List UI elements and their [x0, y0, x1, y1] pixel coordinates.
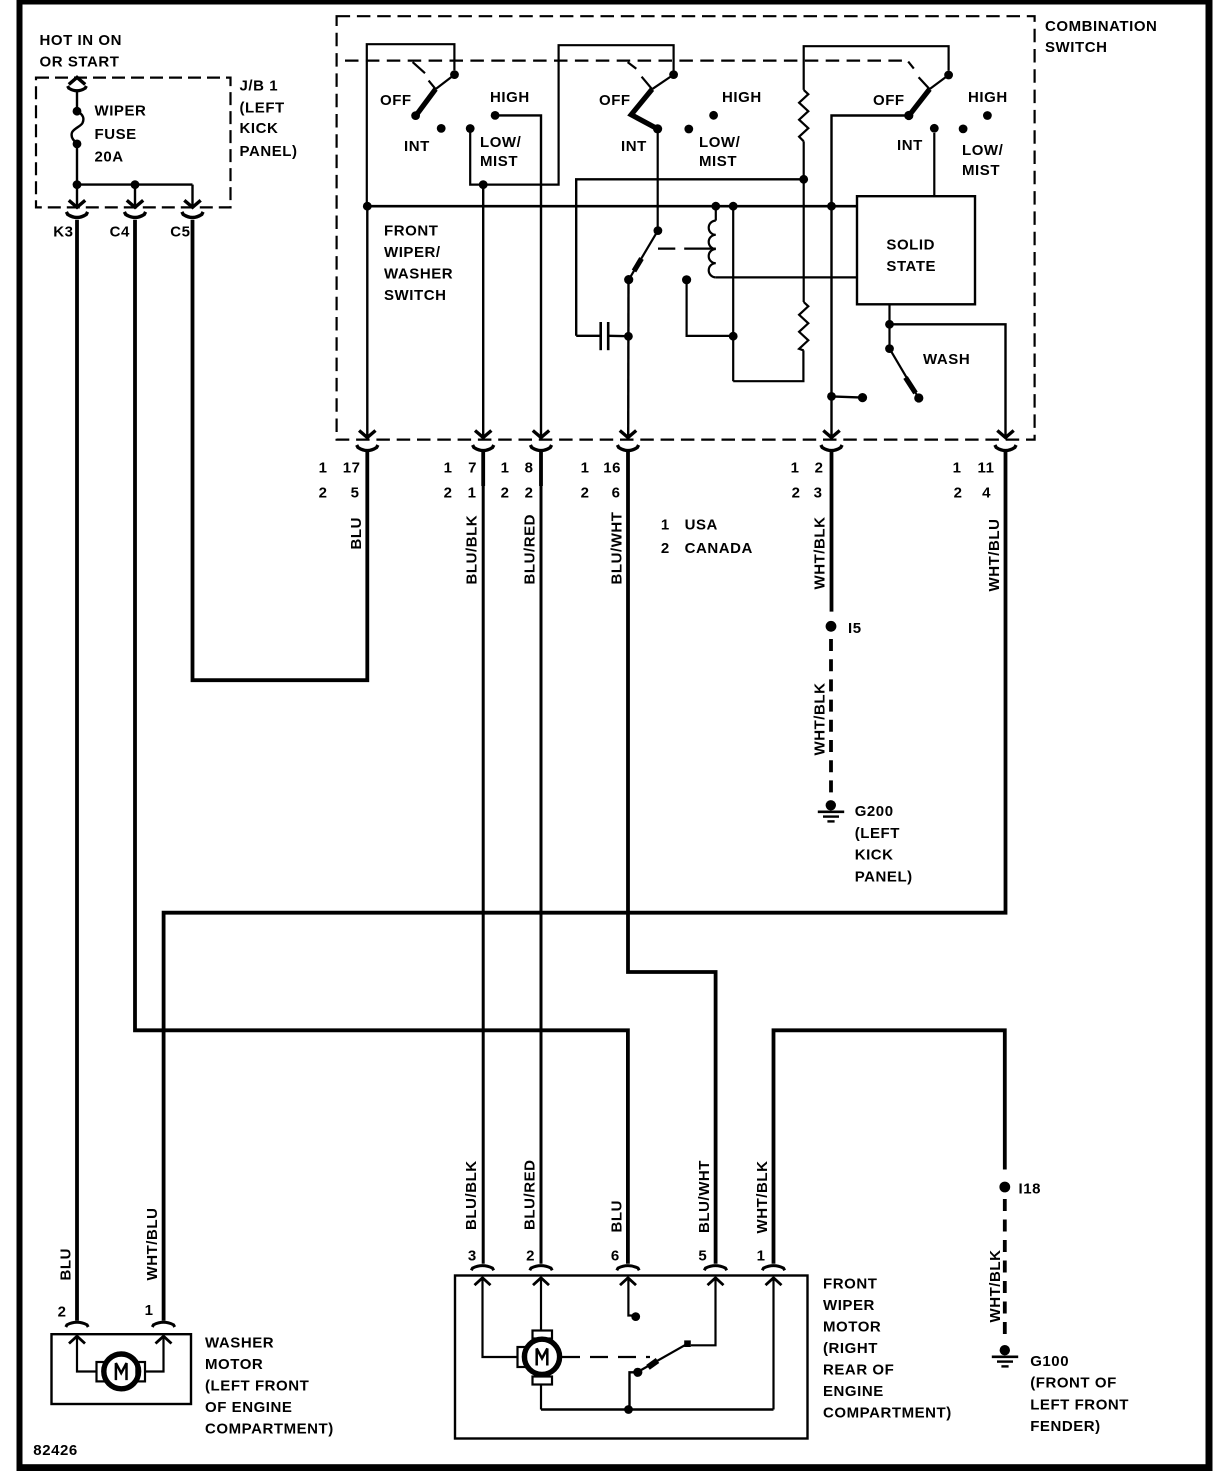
- svg-text:WIPER: WIPER: [95, 103, 147, 120]
- wire bus to pin 17 connector: [366, 206, 368, 436]
- timing node line y179: [576, 175, 808, 336]
- svg-text:FENDER): FENDER): [1030, 1418, 1101, 1435]
- svg-text:BLU/RED: BLU/RED: [522, 514, 539, 585]
- switch 1 feed box wire: [367, 44, 455, 204]
- wire switch1 LOW/MIST to pin 7 node: [470, 129, 487, 437]
- svg-text:LOW/: LOW/: [699, 134, 741, 151]
- svg-text:INT: INT: [897, 137, 923, 154]
- svg-text:1: 1: [757, 1247, 766, 1264]
- relay switch arm: [629, 226, 662, 279]
- connector pin 2/3 (WHT/BLK): [791, 431, 843, 502]
- svg-text:MOTOR: MOTOR: [823, 1319, 881, 1336]
- svg-text:1: 1: [791, 459, 800, 476]
- svg-text:G200: G200: [855, 803, 894, 820]
- washer motor pin 2 connector: [58, 1304, 89, 1344]
- switch 1 contacts OFF INT LOW/MIST HIGH: [411, 111, 499, 133]
- wiper motor M2: [518, 1331, 560, 1385]
- svg-text:1: 1: [953, 459, 962, 476]
- svg-text:1: 1: [468, 485, 477, 502]
- svg-text:(FRONT OF: (FRONT OF: [1030, 1375, 1117, 1392]
- relay contact left (to BLU/WHT): [624, 275, 633, 284]
- svg-text:OFF: OFF: [380, 92, 412, 109]
- wire WHT/BLK wiper motor ground to I18: [774, 1030, 1005, 1264]
- washer motor M1: [97, 1354, 146, 1389]
- resistor R2: [799, 302, 808, 350]
- svg-text:2: 2: [792, 485, 801, 502]
- svg-text:BLU: BLU: [58, 1248, 75, 1280]
- svg-text:MOTOR: MOTOR: [205, 1356, 263, 1373]
- ground G100: [992, 1345, 1129, 1435]
- wiper motor pin 5 connector: [704, 1266, 726, 1286]
- relay contact right: [682, 275, 733, 336]
- svg-text:OR START: OR START: [40, 53, 120, 70]
- svg-text:2: 2: [954, 485, 963, 502]
- svg-text:2: 2: [501, 485, 510, 502]
- svg-text:KICK: KICK: [240, 120, 279, 137]
- svg-text:COMPARTMENT): COMPARTMENT): [823, 1405, 952, 1422]
- svg-text:J/B 1: J/B 1: [240, 78, 279, 95]
- wire R1 node to R2: [803, 179, 805, 302]
- svg-text:OFF: OFF: [599, 92, 631, 109]
- washer motor internal wires: [77, 1338, 164, 1372]
- wash switch arm: [885, 344, 923, 402]
- svg-text:LOW/: LOW/: [962, 142, 1004, 159]
- relay mechanical dashed link: [658, 248, 716, 250]
- svg-text:I5: I5: [848, 620, 862, 637]
- svg-text:C5: C5: [170, 223, 190, 240]
- svg-text:WHT/BLU: WHT/BLU: [144, 1208, 161, 1281]
- wire fuse output bus in J/B1: [73, 144, 193, 207]
- svg-text:5: 5: [698, 1247, 707, 1264]
- svg-text:1: 1: [319, 459, 328, 476]
- svg-text:LOW/: LOW/: [480, 134, 522, 151]
- svg-text:11: 11: [978, 459, 995, 476]
- main bus y206: [363, 202, 857, 211]
- svg-text:17: 17: [343, 459, 361, 476]
- svg-text:WIPER/: WIPER/: [384, 244, 441, 261]
- svg-text:MIST: MIST: [962, 162, 1000, 179]
- connector C5: [170, 200, 203, 240]
- svg-text:G100: G100: [1030, 1353, 1069, 1370]
- svg-text:1: 1: [145, 1302, 154, 1319]
- switch 1 labels: [380, 89, 530, 170]
- label J/B 1 (LEFT KICK PANEL): [240, 78, 298, 160]
- wire BLU from K3 to washer motor pin 2: [75, 220, 79, 1321]
- svg-text:OF ENGINE: OF ENGINE: [205, 1399, 292, 1416]
- wiper motor pin 1 connector: [762, 1266, 784, 1286]
- svg-text:BLU/BLK: BLU/BLK: [463, 1160, 480, 1230]
- relay coil: [709, 206, 857, 277]
- svg-text:BLU: BLU: [609, 1200, 626, 1232]
- svg-text:1: 1: [444, 459, 453, 476]
- wiper motor pin 3 connector: [471, 1266, 493, 1286]
- legend USA/CANADA: [661, 517, 753, 558]
- wire dashed WHT/BLK to G200: [829, 639, 833, 797]
- svg-text:WASH: WASH: [923, 351, 970, 368]
- connector pin 17/5 (BLU): [319, 431, 378, 502]
- svg-text:2: 2: [815, 459, 824, 476]
- svg-text:6: 6: [611, 1247, 620, 1264]
- wire BLU/RED column: [540, 452, 543, 1264]
- svg-text:K3: K3: [53, 223, 73, 240]
- svg-text:BLU/RED: BLU/RED: [522, 1159, 539, 1230]
- svg-text:HIGH: HIGH: [722, 89, 762, 106]
- svg-text:WASHER: WASHER: [384, 266, 453, 283]
- svg-text:COMPARTMENT): COMPARTMENT): [205, 1421, 334, 1438]
- svg-text:BLU/WHT: BLU/WHT: [696, 1160, 713, 1233]
- combination switch dashed box: [337, 16, 1035, 439]
- switch 3 contacts OFF INT LOW/MIST HIGH: [904, 111, 992, 133]
- wire BLU/BLK column: [482, 452, 485, 1264]
- wiper motor pin 6 wire to contact: [628, 1279, 640, 1321]
- resistor R1: [799, 90, 808, 141]
- switch 2 feed box wire: [487, 45, 674, 184]
- svg-text:BLU/BLK: BLU/BLK: [464, 515, 481, 585]
- wiper motor pin 3 wire to motor: [483, 1279, 518, 1357]
- wire BLU/WHT column: [628, 452, 716, 1264]
- svg-text:USA: USA: [685, 517, 718, 534]
- wire solid state to wash node: [885, 304, 1005, 436]
- svg-text:OFF: OFF: [873, 92, 905, 109]
- switch 2 wiper arm (INT position): [631, 70, 678, 133]
- wire WHT/BLU column to washer motor pin 1: [164, 452, 1006, 1321]
- svg-text:(LEFT FRONT: (LEFT FRONT: [205, 1378, 309, 1395]
- label FRONT WIPER/WASHER SWITCH: [384, 223, 453, 305]
- svg-text:(LEFT: (LEFT: [240, 99, 285, 116]
- svg-text:SOLID: SOLID: [886, 236, 935, 253]
- wire BLU from C5 to combination switch pin 17: [193, 220, 368, 680]
- svg-text:C4: C4: [110, 223, 130, 240]
- svg-text:HIGH: HIGH: [968, 89, 1008, 106]
- connector C4: [110, 200, 146, 240]
- svg-text:16: 16: [603, 459, 621, 476]
- labels wiper motor wire colors: [463, 1159, 771, 1233]
- svg-text:HIGH: HIGH: [490, 89, 530, 106]
- switch 3 labels: [873, 89, 1008, 179]
- wiper motor park mechanical dashed link: [562, 1356, 650, 1358]
- wiper motor pin 2 connector: [530, 1266, 552, 1286]
- svg-text:WHT/BLK: WHT/BLK: [987, 1250, 1004, 1323]
- svg-text:3: 3: [814, 485, 823, 502]
- connector at fuse feed (top of J/B1): [68, 77, 87, 90]
- svg-text:6: 6: [612, 485, 621, 502]
- svg-text:PANEL): PANEL): [855, 869, 913, 886]
- svg-text:BLU: BLU: [348, 517, 365, 549]
- svg-text:I18: I18: [1019, 1181, 1042, 1198]
- svg-text:COMBINATION: COMBINATION: [1045, 18, 1157, 35]
- wire WHT/BLK column to I5: [830, 452, 834, 612]
- svg-text:(RIGHT: (RIGHT: [823, 1340, 878, 1357]
- connector pin 16/6 (BLU/WHT): [581, 431, 639, 502]
- svg-text:2: 2: [444, 485, 453, 502]
- wire R1 to timing node: [803, 141, 805, 179]
- node I18: [999, 1181, 1041, 1198]
- wire switch3 INT contact to solid state: [933, 133, 935, 196]
- svg-text:3: 3: [468, 1247, 477, 1264]
- svg-text:INT: INT: [621, 138, 647, 155]
- switch 3 wiper arm (OFF position): [909, 71, 953, 116]
- svg-text:HOT IN ON: HOT IN ON: [40, 32, 122, 49]
- svg-text:2: 2: [58, 1304, 67, 1321]
- svg-text:BLU/WHT: BLU/WHT: [609, 512, 626, 585]
- connector pin 11/4 (WHT/BLU): [953, 431, 1017, 502]
- node capacitor/BLU-WHT junction: [624, 332, 633, 341]
- svg-text:ENGINE: ENGINE: [823, 1383, 884, 1400]
- switch 3 feed box wire: [804, 46, 949, 90]
- connector K3: [53, 200, 87, 240]
- svg-text:82426: 82426: [33, 1442, 77, 1459]
- svg-text:20A: 20A: [95, 149, 124, 166]
- node I5: [826, 620, 862, 637]
- svg-text:KICK: KICK: [855, 847, 894, 864]
- svg-text:(LEFT: (LEFT: [855, 825, 900, 842]
- wiper motor pin numbers: [468, 1247, 766, 1264]
- wire switch 2 arm to relay pivot: [657, 131, 659, 231]
- wiper motor pin 2 wire to motor top: [540, 1279, 542, 1331]
- wire dashed WHT/BLK to G100: [1003, 1199, 1007, 1340]
- svg-text:1: 1: [581, 459, 590, 476]
- svg-text:5: 5: [351, 485, 360, 502]
- svg-text:FRONT: FRONT: [384, 223, 438, 240]
- washer motor pin 1 connector: [145, 1302, 175, 1344]
- svg-text:WHT/BLU: WHT/BLU: [986, 519, 1003, 592]
- wire BLU from C4 to wiper motor pin 6: [135, 220, 628, 1264]
- svg-text:MIST: MIST: [699, 153, 737, 170]
- svg-text:8: 8: [525, 459, 534, 476]
- wiper motor park switch arm: [630, 1340, 691, 1409]
- svg-text:CANADA: CANADA: [685, 540, 753, 557]
- svg-text:WASHER: WASHER: [205, 1335, 274, 1352]
- svg-text:SWITCH: SWITCH: [384, 287, 446, 304]
- svg-text:FRONT: FRONT: [823, 1276, 877, 1293]
- svg-text:REAR OF: REAR OF: [823, 1362, 894, 1379]
- svg-text:MIST: MIST: [480, 153, 518, 170]
- wiper motor pin 5 wire to park contact: [691, 1279, 716, 1345]
- wire switch1 HIGH to pin 8: [495, 115, 541, 436]
- switch 2 contacts LOW/MIST HIGH: [684, 111, 718, 133]
- svg-text:2: 2: [661, 540, 670, 557]
- switch 1 wiper arm (OFF position): [416, 70, 459, 115]
- svg-text:4: 4: [982, 485, 991, 502]
- switch 2 labels: [599, 89, 762, 170]
- svg-text:LEFT FRONT: LEFT FRONT: [1030, 1396, 1129, 1413]
- svg-text:2: 2: [525, 485, 534, 502]
- fuse WIPER FUSE 20A: [72, 103, 147, 166]
- wash switch fixed contact: [827, 392, 867, 402]
- label COMBINATION SWITCH: [1045, 18, 1157, 56]
- junction block J/B 1 dashed box: [36, 78, 231, 208]
- wire switch3 OFF contact to WHT/BLK column: [832, 116, 909, 437]
- svg-text:PANEL): PANEL): [240, 143, 298, 160]
- svg-text:2: 2: [581, 485, 590, 502]
- connector pin 7/1 (BLU/BLK): [444, 431, 494, 502]
- svg-text:WIPER: WIPER: [823, 1297, 875, 1314]
- wiper motor box: [455, 1276, 808, 1439]
- svg-text:STATE: STATE: [886, 258, 936, 275]
- svg-text:2: 2: [319, 485, 328, 502]
- connector pin 8/2 (BLU/RED): [501, 431, 552, 502]
- wire bus drop x733: [729, 206, 804, 381]
- wiper motor ground bus: [541, 1279, 774, 1414]
- washer motor box: [52, 1334, 192, 1404]
- svg-text:2: 2: [526, 1247, 535, 1264]
- svg-text:SWITCH: SWITCH: [1045, 39, 1107, 56]
- svg-text:FUSE: FUSE: [95, 126, 137, 143]
- capacitor C1: [576, 322, 628, 350]
- ground G200: [818, 800, 913, 886]
- wire fuse feed: [76, 92, 78, 112]
- svg-text:1: 1: [501, 459, 510, 476]
- svg-text:1: 1: [661, 517, 670, 534]
- svg-text:WHT/BLK: WHT/BLK: [812, 517, 829, 590]
- svg-text:INT: INT: [404, 138, 430, 155]
- wiper motor pin 6 connector: [617, 1266, 639, 1286]
- label WASHER MOTOR: [205, 1335, 334, 1438]
- solid state module U1: [857, 196, 975, 304]
- svg-text:WHT/BLK: WHT/BLK: [812, 683, 829, 756]
- mechanical link dashed line (switch gang): [345, 61, 914, 74]
- label FRONT WIPER MOTOR: [823, 1276, 952, 1422]
- svg-text:7: 7: [468, 459, 477, 476]
- label HOT IN ON OR START: [40, 32, 122, 70]
- wire relay output to pin 16: [627, 280, 630, 437]
- svg-text:WHT/BLK: WHT/BLK: [754, 1161, 771, 1234]
